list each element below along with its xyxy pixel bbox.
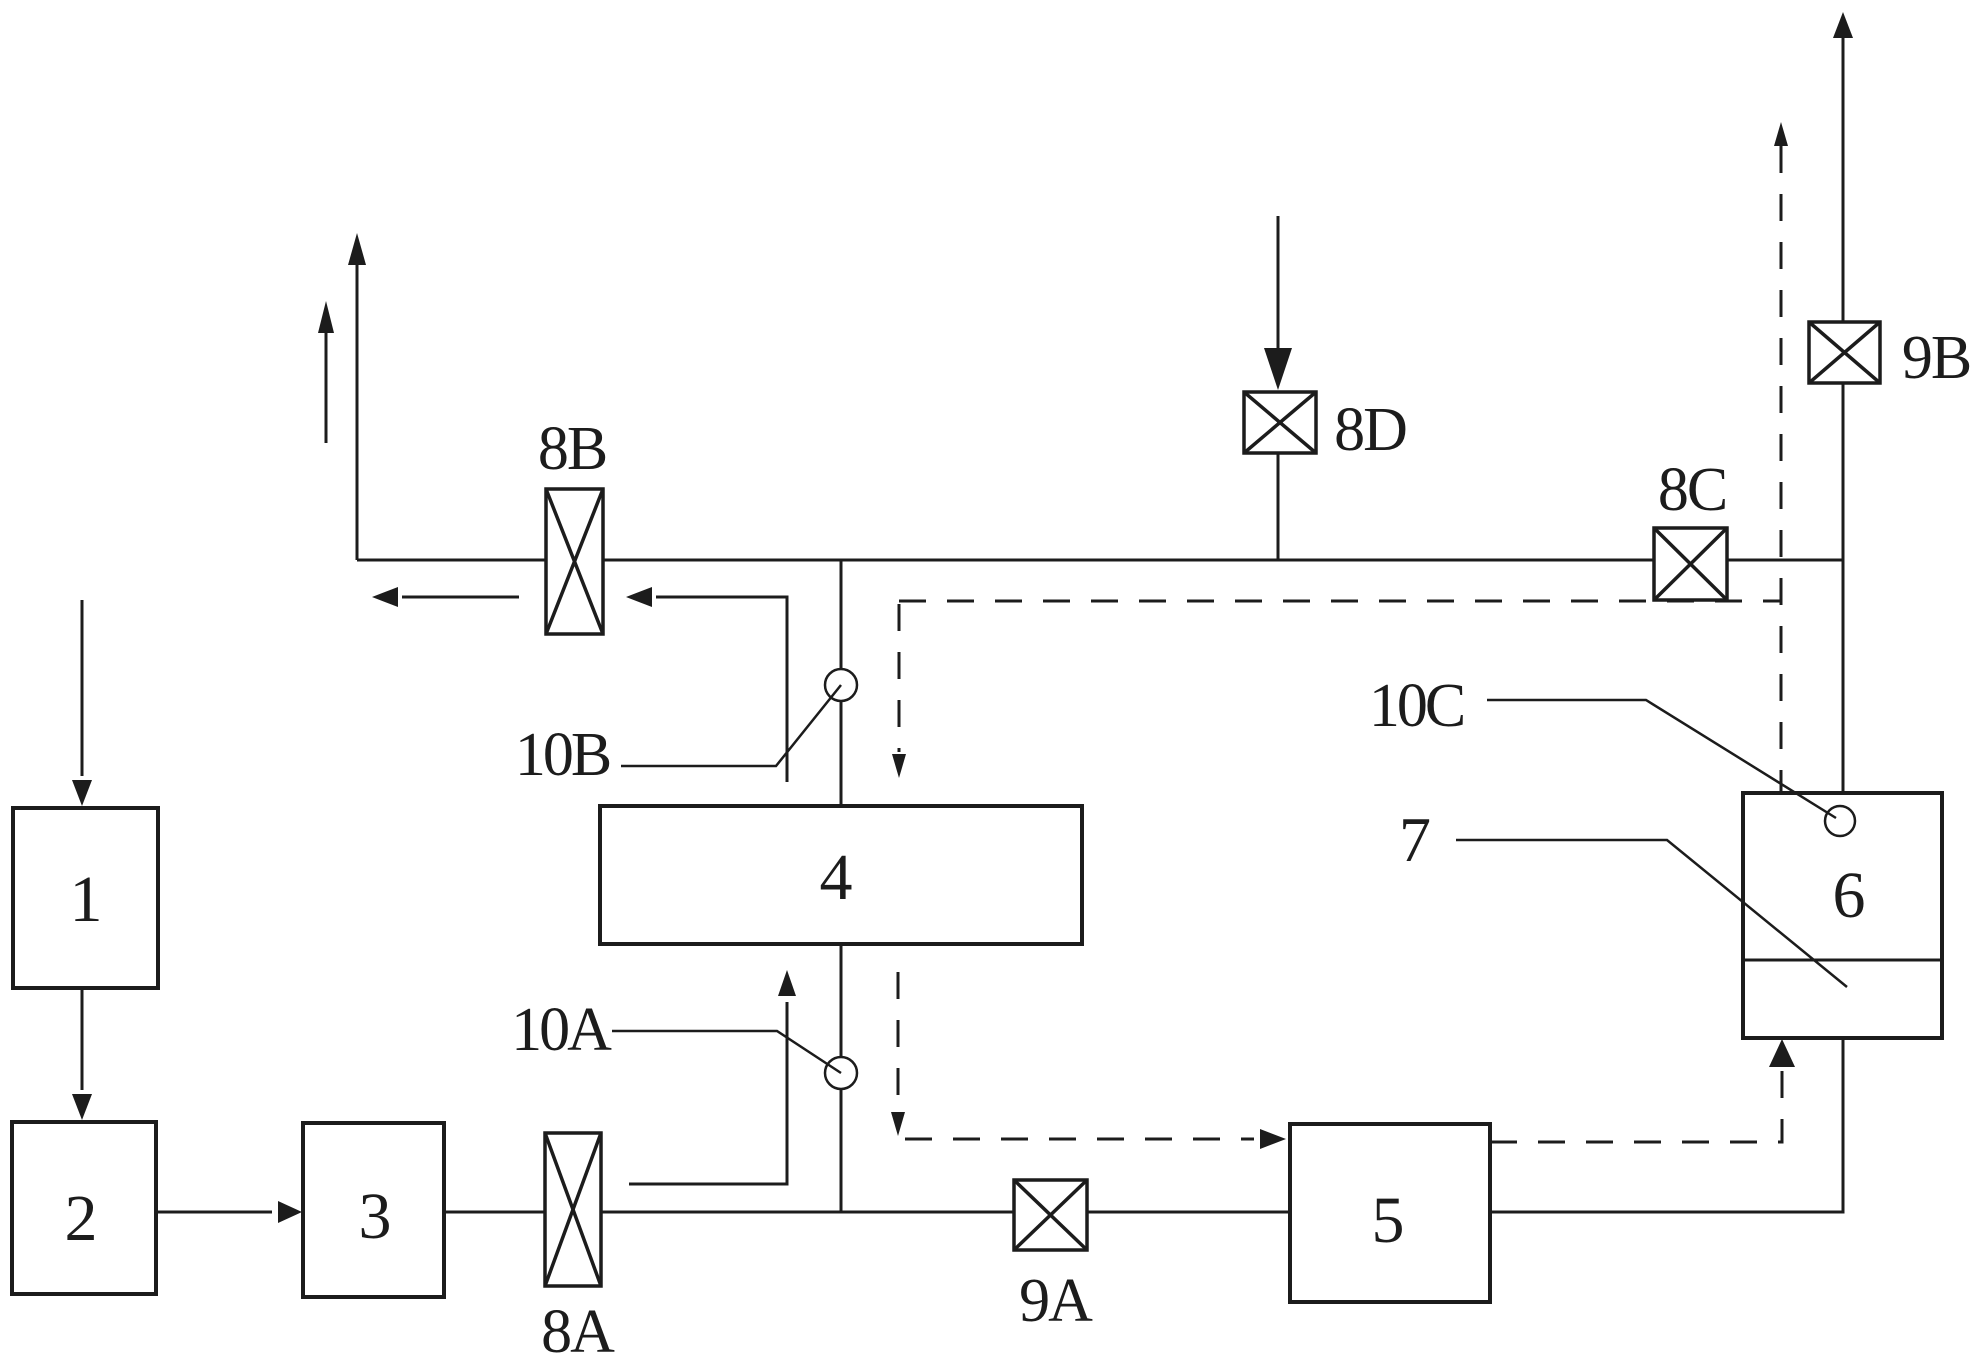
wire feed arrow into valve 8D — [1264, 216, 1292, 390]
leader 10A — [612, 1031, 841, 1073]
wire dashed horizontal return line — [899, 600, 1782, 603]
wire left-pointing arrow right of valve 8B with drop — [626, 587, 787, 782]
wire box5 to box6 (right corner) — [1490, 1038, 1843, 1212]
svg-text:3: 3 — [359, 1180, 392, 1253]
svg-text:8C: 8C — [1658, 456, 1726, 524]
wire main line down to box6 top — [1842, 560, 1845, 793]
box 4 — [600, 806, 1082, 944]
svg-text:8A: 8A — [541, 1298, 615, 1362]
wire left-pointing arrow left of valve 8B — [372, 587, 519, 607]
box 6 — [1743, 793, 1942, 1038]
valve 8A — [545, 1133, 601, 1286]
wire dashed from box5 right up into box6 — [1490, 1039, 1795, 1142]
wire valve 8D to main line — [1277, 453, 1280, 560]
box 3 — [303, 1123, 444, 1297]
svg-text:2: 2 — [65, 1182, 98, 1255]
valve 8D — [1244, 392, 1316, 453]
wire box3 to valve 8A — [444, 1211, 545, 1214]
svg-text:7: 7 — [1399, 804, 1431, 875]
svg-text:4: 4 — [820, 841, 853, 914]
wire box4 bottom to bottom main line — [840, 944, 843, 1212]
leader 10C — [1487, 700, 1836, 818]
wire tall vent arrow at left — [348, 233, 366, 560]
svg-text:10B: 10B — [515, 721, 610, 789]
svg-text:10A: 10A — [511, 996, 612, 1064]
svg-text:1: 1 — [70, 863, 103, 936]
leader 7 — [1456, 840, 1847, 987]
wire box2 to box3 — [156, 1201, 302, 1223]
svg-text:9B: 9B — [1902, 324, 1970, 392]
wire valve 9B to main line — [1842, 383, 1845, 560]
valve 8C — [1654, 528, 1727, 600]
valve 9A — [1014, 1180, 1087, 1250]
wire dashed vertical with top arrow at right — [1774, 122, 1788, 793]
wire main top horizontal line — [357, 559, 1843, 562]
valve 9B — [1809, 322, 1880, 383]
wire box1 to box2 — [72, 988, 92, 1120]
leader 10B — [621, 685, 841, 766]
wire inlet arrow into box 1 — [72, 600, 92, 806]
wire junction vertical to box4 top — [840, 560, 843, 806]
box 1 — [13, 808, 158, 988]
wire dashed down line below box4 — [891, 972, 905, 1136]
svg-text:5: 5 — [1372, 1184, 1405, 1257]
wire outlet arrow above valve 9B — [1833, 12, 1853, 322]
svg-text:10C: 10C — [1369, 672, 1463, 740]
wire dashed horizontal into box5 — [905, 1129, 1286, 1149]
wire valve 8A to valve 9A (bottom main line) — [601, 1211, 1014, 1214]
sensor circle 10B — [825, 669, 857, 701]
wire dashed branch down arrow below main line — [892, 604, 906, 778]
wire valve 9A to box 5 — [1087, 1211, 1290, 1214]
wire short vent arrow at left — [318, 301, 334, 443]
svg-text:8B: 8B — [538, 415, 606, 483]
svg-text:8D: 8D — [1334, 396, 1406, 464]
sensor circle 10C — [1825, 806, 1855, 836]
valve 8B — [546, 489, 603, 634]
box 6 divider (compartment 7) — [1743, 959, 1942, 962]
box 5 — [1290, 1124, 1490, 1302]
box 2 — [12, 1122, 156, 1294]
wire bypass stub with up arrow near valve 8A — [629, 970, 796, 1184]
sensor circle 10A — [825, 1057, 857, 1089]
svg-text:9A: 9A — [1019, 1267, 1093, 1335]
svg-text:6: 6 — [1833, 859, 1866, 932]
